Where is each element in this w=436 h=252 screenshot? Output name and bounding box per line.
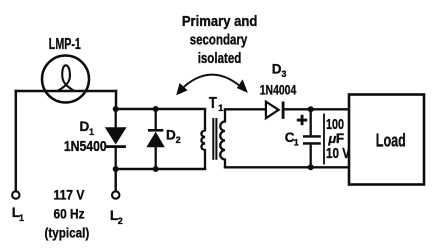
wire secondary top rail <box>225 108 266 110</box>
wire L2 drop <box>114 169 116 191</box>
svg-text:2: 2 <box>118 216 123 226</box>
separator line for value <box>323 114 325 165</box>
diode D3 (open, cathode right) <box>266 102 285 119</box>
svg-text:1: 1 <box>89 127 94 137</box>
svg-text:D: D <box>80 119 90 134</box>
label D2 <box>166 127 181 145</box>
wire top rail (diode network) <box>116 108 205 110</box>
diode D1 (filled, cathode down) <box>105 109 127 169</box>
label Primary and secondary isolated <box>182 13 258 67</box>
svg-text:F: F <box>336 131 344 146</box>
svg-text:isolated: isolated <box>198 50 242 67</box>
svg-text:1N4004: 1N4004 <box>260 82 297 98</box>
wire secondary top rail after D3 <box>284 108 350 110</box>
wire top-left horizontal through lamp <box>16 90 116 92</box>
wire bottom rail (diode network) <box>116 168 205 170</box>
diode D2 (filled, cathode up) <box>146 109 164 169</box>
wire corner down to top rail <box>115 91 117 109</box>
svg-text:1: 1 <box>294 138 299 148</box>
svg-text:D: D <box>272 62 282 77</box>
svg-text:secondary: secondary <box>190 31 248 48</box>
capacitor C1 <box>303 109 321 167</box>
svg-text:1: 1 <box>19 213 24 223</box>
svg-text:1N5400: 1N5400 <box>64 139 107 155</box>
terminal L2 <box>112 191 119 198</box>
transformer T1 primary winding <box>201 109 205 169</box>
svg-text:117 V: 117 V <box>54 187 86 203</box>
lamp LMP-1 <box>42 56 89 103</box>
svg-text:3: 3 <box>281 69 286 79</box>
svg-text:Load: Load <box>376 130 406 150</box>
label + <box>297 115 307 125</box>
svg-text:2: 2 <box>176 135 181 145</box>
wire left vertical rail <box>15 91 17 191</box>
label L2 <box>110 208 123 226</box>
svg-text:10 V: 10 V <box>326 146 350 162</box>
label T1 <box>209 95 223 113</box>
svg-text:1: 1 <box>218 103 223 113</box>
svg-text:D: D <box>166 127 176 142</box>
svg-text:T: T <box>209 95 217 112</box>
svg-text:60 Hz: 60 Hz <box>54 206 85 222</box>
load box <box>349 95 424 185</box>
svg-text:Primary and: Primary and <box>182 13 258 30</box>
svg-text:LMP-1: LMP-1 <box>49 36 81 53</box>
label D1 <box>80 119 95 137</box>
wire secondary bottom rail <box>225 166 349 168</box>
label D3 <box>272 62 287 80</box>
junction dots <box>113 106 314 172</box>
label L1 <box>12 205 24 223</box>
label 117 V 60 Hz (typical) <box>45 187 90 241</box>
svg-text:(typical): (typical) <box>45 225 90 241</box>
transformer T1 core <box>212 118 217 160</box>
terminal L1 <box>12 191 19 198</box>
label 100 uF 10 V <box>326 116 350 162</box>
curved double arrow <box>176 75 248 96</box>
transformer T1 secondary winding <box>220 109 225 167</box>
label C1 <box>285 130 299 148</box>
